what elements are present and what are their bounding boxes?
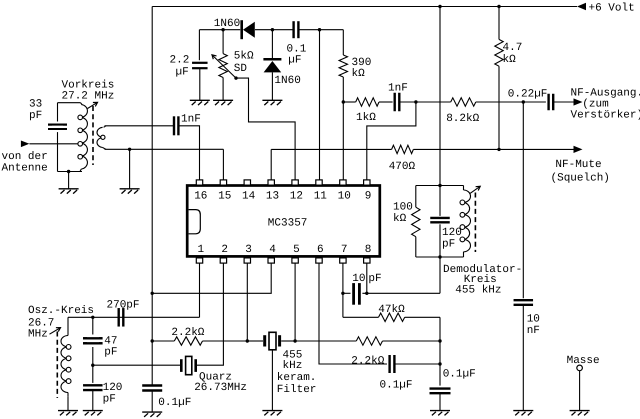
- node junction 10nF branch: [522, 100, 525, 103]
- wire secondary bottom: [105, 148, 224, 150]
- resistor 47kOhm: [343, 316, 379, 318]
- resistor 4.7kOhm: [495, 39, 503, 66]
- wire 0.22uF to output: [553, 101, 573, 103]
- pin 9 stub: [364, 180, 370, 185]
- capacitor 0.1uF bus: [142, 384, 162, 386]
- node junction tank bottom: [67, 170, 70, 173]
- terminal Masse circle: [577, 365, 583, 371]
- pin 15 stub: [220, 180, 226, 185]
- svg-text:6: 6: [317, 244, 324, 256]
- filter ceramic 455kHz: [263, 335, 266, 346]
- wire 10nF to ground: [522, 305, 524, 411]
- potentiometer 5k SD: [219, 54, 227, 78]
- wire secondary top to 1nF: [105, 125, 175, 127]
- wire pin11 drop: [319, 30, 321, 180]
- node junction 47pF bottom: [91, 364, 94, 367]
- trimmer arrow Osz: [50, 328, 60, 334]
- svg-text:Masse: Masse: [567, 355, 600, 367]
- wire to pin15: [222, 149, 224, 180]
- node junction feedback: [414, 100, 417, 103]
- pin 8 stub: [364, 258, 370, 263]
- svg-text:8: 8: [365, 244, 372, 256]
- svg-text:10: 10: [527, 313, 540, 325]
- svg-text:pF: pF: [103, 393, 116, 405]
- wire Osz coil to ground: [67, 397, 69, 411]
- svg-text:13: 13: [266, 190, 279, 202]
- svg-text:10: 10: [352, 273, 365, 285]
- wire +6V supply rail: [152, 6, 577, 8]
- tap circles Osz coil: [66, 345, 71, 350]
- pin 3 stub: [244, 258, 250, 263]
- svg-text:12: 12: [290, 190, 303, 202]
- node junction bus/Vcc wire: [151, 292, 154, 295]
- svg-text:16: 16: [194, 190, 207, 202]
- trimmer arrow Vorkreis: [88, 103, 97, 109]
- svg-text:2.2kΩ: 2.2kΩ: [351, 355, 384, 367]
- pin 4 stub: [268, 258, 274, 263]
- svg-text:kΩ: kΩ: [393, 213, 407, 225]
- wire filter ground tap: [271, 350, 273, 411]
- wire 120pF demod top: [439, 186, 441, 216]
- svg-text:pF: pF: [104, 346, 117, 358]
- wire filter left: [247, 340, 263, 342]
- wire feedback to pin9: [367, 102, 416, 180]
- capacitor 120pF demod: [430, 217, 450, 219]
- svg-text:Antenne: Antenne: [2, 162, 48, 174]
- wire left supply bus vertical: [151, 7, 153, 386]
- diode 1N60 series: [240, 20, 243, 39]
- svg-text:4: 4: [269, 244, 276, 256]
- wire tank bottom: [58, 171, 83, 173]
- ground right 0.1uF: [430, 410, 450, 412]
- resistor 2.2kOhm osc: [152, 340, 174, 342]
- tap circle secondary: [101, 135, 105, 139]
- svg-text:27.2 MHz: 27.2 MHz: [62, 90, 115, 102]
- resistor 8.2kOhm: [451, 98, 476, 106]
- wire 120pF to ground: [92, 390, 94, 411]
- inductor Osz coil: [67, 317, 69, 335]
- wire shunt diode to ground: [271, 72, 273, 100]
- inductor L1 secondary: [104, 126, 106, 128]
- wire secondary ground drop: [129, 149, 131, 189]
- terminal antenna input arrow: [21, 141, 30, 148]
- wire bus cap to ground: [151, 390, 153, 412]
- wire to 390k: [342, 30, 344, 55]
- capacitor 10pF: [352, 283, 355, 305]
- wire 390k to node: [342, 77, 344, 102]
- wire Masse to ground: [579, 371, 581, 411]
- resistor 2.2kOhm limiter: [295, 340, 356, 342]
- diode 1N60 shunt: [263, 58, 281, 61]
- pin 16 stub: [196, 180, 202, 185]
- pot wiper arrow: [213, 56, 236, 79]
- capacitor 270pF: [117, 308, 119, 327]
- core dashed line Osz: [56, 332, 58, 399]
- wire 10nF branch: [522, 102, 524, 298]
- svg-text:µF: µF: [176, 67, 189, 79]
- wire 0.1uF to 440bus: [394, 363, 440, 365]
- pin 14 stub: [244, 180, 250, 185]
- svg-text:8.2kΩ: 8.2kΩ: [446, 113, 479, 125]
- tap circles primary: [78, 115, 83, 120]
- svg-text:2.2kΩ: 2.2kΩ: [171, 327, 204, 339]
- svg-text:2.2: 2.2: [170, 55, 190, 67]
- capacitor 120pF osc: [83, 384, 103, 386]
- node junction rail/demod branch: [438, 5, 441, 8]
- wire 10pF right: [362, 292, 440, 294]
- svg-text:33: 33: [29, 99, 42, 111]
- resistor 100kOhm: [412, 207, 420, 237]
- core dashed line Vorkreis: [92, 106, 94, 165]
- node junction rail/4.7k branch: [497, 5, 500, 8]
- svg-text:0.1µF: 0.1µF: [158, 397, 191, 409]
- svg-text:120: 120: [103, 382, 123, 394]
- svg-text:270pF: 270pF: [107, 300, 140, 312]
- ground secondary: [120, 188, 140, 190]
- svg-text:NF-Mute: NF-Mute: [555, 159, 601, 171]
- resistor 1kOhm: [343, 101, 355, 103]
- svg-text:von der: von der: [2, 151, 48, 163]
- pin 11 stub: [316, 180, 322, 185]
- tap circles demod coil: [460, 200, 465, 205]
- ic notch: [189, 210, 201, 234]
- ground bus: [142, 411, 162, 413]
- svg-text:(Squelch): (Squelch): [551, 173, 610, 185]
- svg-text:kΩ: kΩ: [503, 54, 517, 66]
- capacitor 10nF: [514, 299, 534, 301]
- node junction pin7/10pF: [341, 292, 344, 295]
- ground 2.2uF: [190, 99, 210, 101]
- node junction 2.2k/440bus: [438, 339, 441, 342]
- wire 1nF to junction: [399, 101, 416, 103]
- svg-text:5: 5: [293, 244, 300, 256]
- svg-text:kHz: kHz: [283, 360, 303, 372]
- inductor demod coil: [463, 186, 465, 191]
- node junction pin5/filter: [293, 339, 296, 342]
- wire filter right: [281, 340, 295, 342]
- svg-text:11: 11: [314, 190, 328, 202]
- svg-text:Osz.-Kreis: Osz.-Kreis: [28, 305, 94, 317]
- ground input tank: [59, 188, 79, 190]
- node junction demod top: [438, 184, 441, 187]
- svg-text:14: 14: [242, 190, 256, 202]
- node junction 390k/1k/pin10: [342, 100, 345, 103]
- node junction 4.7k/mute: [497, 148, 500, 151]
- wire 47pF vertical: [92, 317, 94, 365]
- pin 2 stub: [220, 258, 226, 263]
- capacitor 0.22uF: [547, 94, 549, 111]
- trimmer arrow demod: [470, 187, 480, 194]
- svg-text:26.73MHz: 26.73MHz: [194, 382, 247, 394]
- wire wiper to pin12: [236, 78, 295, 180]
- svg-text:5kΩ: 5kΩ: [234, 51, 254, 63]
- wire 33pF branch left vertical: [57, 103, 59, 172]
- wire demod top: [416, 185, 464, 187]
- ground Osz coil: [58, 410, 78, 412]
- svg-text:15: 15: [218, 190, 231, 202]
- svg-text:7: 7: [341, 244, 348, 256]
- svg-text:0.22µF: 0.22µF: [508, 88, 548, 100]
- capacitor 0.1uF decouple right: [430, 387, 451, 389]
- ground 10nF: [513, 410, 533, 412]
- svg-text:9: 9: [365, 190, 372, 202]
- wire 1nF to pin16: [178, 126, 199, 180]
- wire 2.2uF to ground: [199, 68, 201, 100]
- node junction pot top: [221, 28, 224, 31]
- svg-text:Verstörker): Verstörker): [571, 109, 640, 121]
- ground Masse: [570, 410, 590, 412]
- pin 12 stub: [292, 180, 298, 185]
- terminal NF-Mute arrow: [574, 146, 583, 153]
- svg-text:µF: µF: [288, 54, 301, 66]
- svg-text:keram.: keram.: [277, 372, 317, 384]
- svg-text:pF: pF: [368, 273, 381, 285]
- capacitor 1nF input coupling: [173, 116, 175, 135]
- wire 10pF left: [343, 292, 351, 294]
- inductor L1 primary Vorkreis: [81, 103, 83, 105]
- ground shunt diode: [262, 99, 282, 101]
- node junction pin11 drop: [318, 28, 321, 31]
- wire 120pF demod bottom: [439, 224, 441, 257]
- svg-text:1nF: 1nF: [388, 82, 408, 94]
- svg-text:1N60: 1N60: [214, 18, 240, 30]
- wire mute right: [413, 148, 573, 150]
- wire 4.7k top: [498, 7, 500, 40]
- svg-text:0.1µF: 0.1µF: [443, 368, 476, 380]
- svg-text:Filter: Filter: [277, 384, 317, 396]
- pin 10 stub: [340, 180, 346, 185]
- svg-text:4.7: 4.7: [503, 42, 523, 54]
- capacitor 1nF feedback: [394, 93, 396, 112]
- capacitor 0.1uF coupling: [388, 355, 390, 373]
- wire pin6 down: [319, 263, 387, 364]
- wire 100k bottom: [415, 237, 417, 257]
- svg-text:0.1µF: 0.1µF: [380, 380, 413, 392]
- wire Vcc to pin4: [152, 263, 271, 293]
- svg-text:+6 Volt: +6 Volt: [589, 3, 635, 15]
- terminal +6 Volt: [577, 3, 586, 11]
- svg-text:pF: pF: [29, 110, 42, 122]
- node junction 47pF top: [91, 316, 94, 319]
- pin 5 stub: [292, 258, 298, 263]
- wire tank top: [58, 102, 81, 104]
- wire 120pF vertical: [92, 365, 94, 383]
- svg-text:10: 10: [338, 190, 351, 202]
- wire right cap to ground: [439, 393, 441, 410]
- wire tank bottom to ground: [68, 172, 70, 189]
- node junction secondary bottom ground: [128, 148, 131, 151]
- node junction demod bottom: [438, 255, 441, 258]
- wire limiter node: [199, 29, 240, 31]
- wire demod bottom: [416, 256, 464, 258]
- svg-text:MHz: MHz: [28, 328, 48, 340]
- wire 440 bus vertical: [439, 317, 441, 385]
- node junction shunt diode top: [271, 28, 274, 31]
- pin 7 stub: [340, 258, 346, 263]
- svg-text:1kΩ: 1kΩ: [356, 112, 376, 124]
- node junction wiper: [234, 76, 237, 79]
- svg-text:1N60: 1N60: [274, 75, 300, 87]
- wire antenna to coil tap: [29, 143, 78, 145]
- svg-text:1nF: 1nF: [181, 113, 201, 125]
- wire pot top: [222, 30, 224, 54]
- wire pin10 drop: [342, 102, 344, 180]
- svg-text:470Ω: 470Ω: [389, 161, 416, 173]
- pin 6 stub: [316, 258, 322, 263]
- svg-text:MC3357: MC3357: [268, 218, 308, 230]
- svg-text:SD: SD: [234, 63, 248, 75]
- wire osc tank top: [68, 316, 200, 318]
- wire quartz to pin2: [197, 263, 223, 365]
- svg-text:47kΩ: 47kΩ: [378, 304, 405, 316]
- svg-text:455 kHz: 455 kHz: [455, 284, 501, 296]
- wire pin13 up: [270, 149, 272, 180]
- svg-text:pF: pF: [442, 238, 455, 250]
- pin 1 stub: [196, 258, 202, 263]
- capacitor 47pF: [83, 337, 103, 339]
- svg-text:1: 1: [198, 244, 205, 256]
- svg-text:390: 390: [352, 57, 372, 69]
- wire pin1 down: [199, 263, 201, 317]
- svg-text:NF-Ausgang.: NF-Ausgang.: [571, 87, 640, 99]
- svg-text:nF: nF: [527, 325, 540, 337]
- ground filter: [262, 410, 282, 412]
- wire 8.2k to 0.22uF: [476, 101, 546, 103]
- terminal NF-Ausgang arrow: [574, 98, 583, 105]
- wire junction to 8.2k: [416, 101, 451, 103]
- ic MC3357 body: [187, 186, 380, 257]
- svg-text:100: 100: [393, 202, 413, 214]
- wire pot bottom to ground: [222, 78, 224, 101]
- wire pin8 down: [366, 263, 368, 293]
- wire 10pF to demod: [439, 257, 441, 293]
- capacitor 33pF: [48, 124, 67, 126]
- node junction pin3/filter: [246, 339, 249, 342]
- node junction 0.1uF/440bus: [438, 362, 441, 365]
- pin 13 stub: [268, 180, 274, 185]
- wire quartz node: [93, 364, 180, 366]
- wire 4.7k to mute wire: [498, 66, 500, 149]
- resistor 470Ohm: [392, 145, 414, 153]
- wire mute left: [271, 148, 391, 150]
- wire pin3 down: [246, 263, 248, 341]
- svg-text:2: 2: [221, 244, 228, 256]
- node junction pin8/10pF: [365, 292, 368, 295]
- wire 2.2uF drop: [198, 30, 200, 61]
- svg-text:120: 120: [442, 227, 462, 239]
- core dashed line demod: [474, 193, 476, 253]
- wire pin7 down: [342, 263, 344, 317]
- wire 100k top: [415, 186, 417, 208]
- ground pot: [213, 99, 233, 101]
- svg-text:kΩ: kΩ: [352, 68, 366, 80]
- ground 120pF: [83, 410, 103, 412]
- capacitor 0.1uF limiter: [292, 21, 294, 38]
- wire shunt diode top: [271, 30, 273, 59]
- wire demod from rail: [439, 7, 441, 186]
- wire pin5 down: [294, 263, 296, 341]
- capacitor 2.2uF: [192, 62, 208, 64]
- svg-text:3: 3: [245, 244, 252, 256]
- resistor 390kOhm: [339, 55, 347, 77]
- crystal Quarz 26.73MHz: [180, 359, 183, 372]
- node junction bus/2.2k: [151, 339, 154, 342]
